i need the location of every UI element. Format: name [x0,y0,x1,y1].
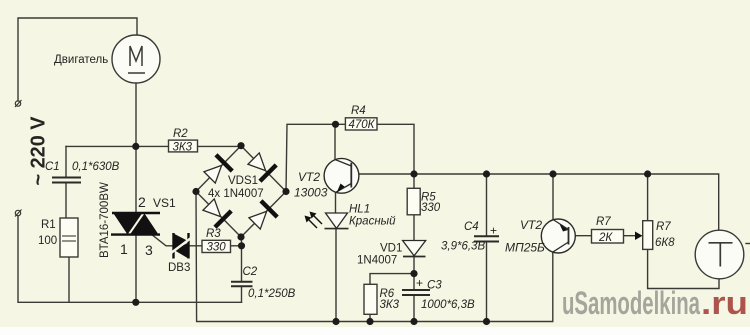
terminal input top [15,100,22,107]
resistor R3 [202,240,231,253]
wire motor to triac [135,83,137,213]
svg-text:4x 1N4007: 4x 1N4007 [208,188,264,200]
svg-text:6К8: 6К8 [655,237,675,249]
node bridge top [237,142,244,149]
resistor R6 [364,284,377,314]
svg-text:.ru: .ru [701,285,748,321]
svg-text:+: + [416,276,423,290]
bridge VDS1 diode top-right [245,150,276,181]
wire left lower to bus A [18,216,242,302]
LED HL1 [305,212,349,229]
bridge VDS1 diode bottom-left [200,196,231,227]
svg-text:VT2: VT2 [520,218,542,232]
wire C3 bottom [413,295,415,322]
svg-text:R1: R1 [41,219,56,231]
wire R4 right to R5 column [377,124,414,188]
svg-text:3: 3 [145,242,153,258]
svg-text:0,1*630В: 0,1*630В [72,161,120,173]
svg-text:3К3: 3К3 [380,299,400,311]
node C3/bus B [410,318,417,325]
svg-text:uSamodelkina: uSamodelkina [562,285,700,321]
node C4 top [483,170,490,177]
node bridge left [192,188,199,195]
svg-text:R7: R7 [656,221,671,233]
svg-text:3К3: 3К3 [173,141,193,153]
diode VD1 [403,241,426,257]
wire R1 bottom [68,257,70,302]
potentiometer R7 6K8 [635,221,653,250]
node VD1/R6/C3 [410,270,417,277]
wire C2 bottom [241,287,243,303]
node motor/top bus [132,143,139,150]
wire HL1 to bus B [335,229,337,322]
wire pot bottom to T [648,249,719,288]
node triac/bus A [132,299,139,306]
svg-text:R3: R3 [206,228,221,240]
wire VT2 base to bus [359,173,414,175]
node R4/collector [332,121,339,128]
svg-text:C1: C1 [45,161,60,173]
transistor VT2 МП25Б [541,219,575,253]
wire junction to R6 [370,274,414,285]
wire bus DC right [414,174,719,230]
wire R6 bottom [369,314,371,321]
node HL1/bus B [332,318,339,325]
wire C4 top lead [486,174,488,236]
transistor VT2 13003 [324,158,359,193]
wire gate diagonal to DB3 [152,235,173,246]
resistor R5 [407,188,420,215]
wire VT2b vertical top [552,174,554,219]
diac DB3 [171,233,191,259]
motor M1 [112,35,160,83]
wire VT2 emitter to HL1 [335,193,337,214]
svg-text:+: + [490,224,497,238]
node pot top [644,170,651,177]
svg-text:R7: R7 [596,216,611,228]
svg-text:BTA16-700BW: BTA16-700BW [99,182,111,258]
wire R5 to VD1 [413,215,415,240]
svg-text:МП25Б: МП25Б [505,241,545,255]
svg-text:2К: 2К [598,232,613,244]
wire C1 leads [65,146,67,177]
triac VS1 [111,213,160,235]
resistor R4 [345,118,377,131]
bridge VDS1 diode bottom-right [246,201,277,232]
svg-text:330: 330 [421,202,441,214]
wire DB3 to R3 [189,245,203,247]
svg-text:DB3: DB3 [168,262,190,274]
resistor R2 [169,140,198,153]
svg-text:VD1: VD1 [380,243,402,255]
node bridge right [282,188,289,195]
capacitor C4 [474,236,499,241]
wire bridge diamond [196,146,286,237]
wire bridge bottom to C2 [241,237,243,282]
capacitor C2 [231,282,253,287]
svg-text:VT2: VT2 [298,170,320,184]
node VT2b top [549,170,556,177]
wire top-left loop [18,18,137,101]
svg-text:1N4007: 1N4007 [357,255,397,267]
wire R3 to junction [231,245,242,247]
svg-text:1000*6,3В: 1000*6,3В [421,299,475,311]
node base/R5 [410,170,417,177]
svg-text:R2: R2 [173,128,188,140]
wire pot top [647,174,649,221]
resistor R1 [60,218,78,257]
wire VT2b base to R7 [569,235,592,237]
wire top bus C1 to bridge [66,145,241,147]
node R3/C2 [238,242,245,249]
wire R7 to pot arrow [624,235,638,237]
node R6/bus B [366,318,373,325]
svg-text:VS1: VS1 [153,196,176,210]
svg-text:0,1*250В: 0,1*250В [248,288,296,300]
svg-text:R4: R4 [351,105,366,117]
wire C4 bottom lead [486,242,488,322]
capacitor C3 [402,290,430,295]
svg-text:VDS1: VDS1 [228,175,258,187]
resistor R7 2K [592,230,624,244]
wire VT2 collector [334,124,336,159]
svg-text:470К: 470К [349,119,376,131]
svg-text:C4: C4 [464,221,479,233]
wire T right dash [746,243,750,245]
svg-text:Двигатель: Двигатель [54,54,108,66]
wire triac bottom to bus A [135,235,137,302]
tachometer T [695,230,744,279]
node C4/bus B [483,318,490,325]
wire VD1 to junction [413,257,415,290]
svg-text:3,9*6,3В: 3,9*6,3В [441,241,485,253]
svg-text:~ 220 V: ~ 220 V [28,116,50,186]
wire bridge left corner riser down [196,192,553,322]
svg-text:1: 1 [120,241,128,257]
node bridge bottom [237,233,244,240]
svg-text:13003: 13003 [294,186,328,200]
svg-text:330: 330 [207,242,227,254]
terminal input bottom [15,210,22,217]
svg-text:C3: C3 [427,280,442,292]
svg-text:HL1: HL1 [349,204,370,216]
svg-text:C2: C2 [243,266,258,278]
wire bridge right corner riser up to R4 [286,124,345,191]
svg-text:100: 100 [38,235,57,247]
bridge VDS1 diode top-left [201,155,232,186]
capacitor C1 [52,178,81,183]
svg-text:2: 2 [138,194,146,210]
svg-text:Красный: Красный [349,216,396,228]
